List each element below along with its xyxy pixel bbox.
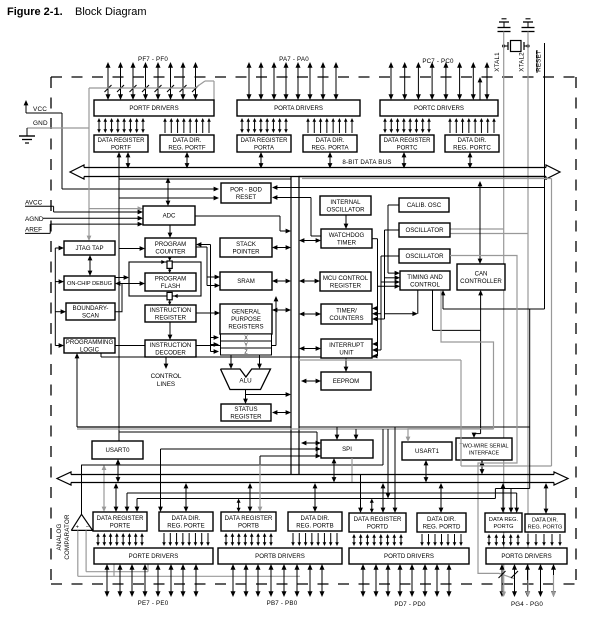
svg-text:DATA REGISTER: DATA REGISTER [354, 516, 402, 523]
mcu ctrl bus arrow [303, 280, 315, 282]
DATA REGISTER PORTD [349, 513, 406, 532]
svg-text:INTERRUPT: INTERRUPT [329, 342, 364, 349]
svg-text:REG. PORTF: REG. PORTF [168, 144, 205, 151]
DATA REGISTER PORTB [221, 512, 276, 531]
svg-text:INTERFACE: INTERFACE [469, 450, 500, 456]
DATA DIR. REG. PORTG [525, 514, 565, 532]
svg-text:EEPROM: EEPROM [333, 378, 359, 385]
bus to ADC arrow [167, 182, 169, 202]
XTAL1 ground + load capacitor [499, 21, 509, 23]
peripheral box bottom [299, 426, 530, 428]
svg-text:LOGIC: LOGIC [80, 346, 100, 353]
pc right arrow [210, 245, 212, 352]
svg-text:DATA DIR.: DATA DIR. [301, 515, 330, 522]
svg-text:ADC: ADC [163, 213, 176, 220]
svg-text:DATA DIR.: DATA DIR. [172, 515, 201, 522]
svg-text:POINTER: POINTER [232, 248, 260, 255]
boundary-scan to debug wire [115, 284, 122, 312]
POR wire from core corner [119, 197, 214, 199]
BOUNDARY-SCAN U [66, 303, 115, 320]
svg-text:REG. PORTC: REG. PORTC [453, 144, 491, 151]
DATA REG. PORTG [485, 513, 522, 532]
CONTROL LINES label+arrow [165, 357, 167, 365]
svg-text:ANALOG: ANALOG [56, 524, 63, 551]
svg-text:INTERNAL: INTERNAL [330, 199, 361, 206]
DATA DIR. REG. PORTE [159, 512, 213, 531]
PORTD pins [362, 569, 364, 592]
svg-text:SRAM: SRAM [237, 278, 255, 285]
svg-text:REGISTERS: REGISTERS [228, 324, 263, 331]
svg-text:CONTROLLER: CONTROLLER [460, 278, 502, 285]
svg-text:GENERAL: GENERAL [231, 309, 261, 316]
gray spi-portb wire [259, 465, 261, 507]
gpr bus arrow [276, 309, 286, 311]
timer to timing right arrow [417, 290, 419, 314]
svg-text:SPI: SPI [342, 446, 352, 453]
svg-text:XTAL1: XTAL1 [494, 52, 501, 72]
svg-text:REGISTER: REGISTER [330, 282, 362, 289]
alt function wire B [137, 498, 495, 500]
spi left wires [161, 448, 317, 450]
JTAG column feeder line [54, 248, 56, 346]
svg-text:REG. PORTA: REG. PORTA [311, 144, 349, 151]
svg-text:Figure 2-1.: Figure 2-1. [7, 6, 63, 18]
BOUNDARY-SCAN left arrow [55, 311, 61, 313]
svg-text:TIMER/: TIMER/ [336, 307, 357, 314]
svg-text:GND: GND [33, 120, 48, 127]
osc2 tosc gray rail [450, 256, 517, 579]
XTAL2 ground + load capacitor [523, 21, 533, 23]
svg-text:REG. PORTB: REG. PORTB [296, 522, 333, 529]
svg-text:DATA REGISTER: DATA REGISTER [241, 138, 289, 144]
eeprom bus arrow [305, 380, 316, 382]
DATA DIR. REG. PORTB [288, 512, 342, 531]
PORTA driver-register arrows [241, 121, 243, 130]
data bus upper [70, 165, 84, 179]
portd feed verticals [382, 429, 384, 465]
analog comparator A1 [71, 514, 92, 530]
svg-text:PURPOSE: PURPOSE [231, 316, 261, 323]
pc to sram wire [196, 246, 207, 248]
svg-text:Block Diagram: Block Diagram [75, 6, 147, 18]
SRAM U [220, 272, 272, 290]
spi bus arrows [333, 462, 335, 478]
watchdog to timing wire [372, 238, 378, 240]
svg-text:SCAN: SCAN [82, 312, 99, 319]
svg-text:DECODER: DECODER [155, 349, 186, 356]
USART0 U [92, 441, 143, 459]
clk out pin arrow [479, 82, 481, 100]
svg-text:STATUS: STATUS [234, 406, 257, 413]
stack pointer bus arrow [276, 247, 286, 249]
DATA DIR. REG. PORTC [445, 135, 499, 152]
analog supply gray rail to PORTF [89, 87, 195, 89]
JTAG TAP U [64, 241, 115, 255]
PORTE DRIVERS [94, 548, 213, 564]
XTAL2 net [527, 32, 529, 581]
PORTA register bus arrows [260, 156, 262, 164]
svg-text:−: − [86, 525, 89, 531]
portd register bus arrows [360, 475, 362, 509]
CAN CONTROLLER U [457, 264, 505, 290]
svg-text:PORTC DRIVERS: PORTC DRIVERS [414, 105, 464, 112]
comparator input wires [77, 530, 79, 576]
sram bus arrow [276, 280, 286, 282]
OSCILLATOR U1 [399, 223, 450, 237]
PORTA DRIVERS [237, 100, 360, 116]
instruction reg to gpr arrow [196, 312, 216, 314]
TIMING AND CONTROL U [400, 271, 450, 290]
svg-text:PG4 - PG0: PG4 - PG0 [511, 601, 543, 608]
svg-text:REG. PORTD: REG. PORTD [423, 523, 461, 530]
POR - BOD RESET U [221, 183, 271, 203]
svg-text:PORTC: PORTC [397, 145, 418, 151]
PORTC DRIVERS [380, 100, 498, 116]
oscillator1 to timing wire [385, 229, 400, 231]
usart1 gray wrap [408, 291, 494, 438]
svg-text:WATCHDOG: WATCHDOG [329, 232, 365, 239]
svg-text:USART0: USART0 [106, 447, 131, 454]
VCC pin [25, 104, 27, 113]
RESET net [544, 43, 546, 309]
porte register bus arrow [115, 487, 117, 507]
svg-text:DATA DIR.: DATA DIR. [427, 516, 456, 523]
PORTF driver-register arrows [98, 121, 100, 130]
DATA DIR. REG. PORTF [160, 135, 214, 152]
PORTC pins [390, 67, 392, 95]
svg-text:DATA REGISTER: DATA REGISTER [97, 516, 145, 522]
ADC output wire [195, 215, 280, 217]
PORTG DRIVERS [486, 548, 567, 564]
svg-text:AVCC: AVCC [25, 200, 43, 207]
svg-text:AGND: AGND [25, 216, 44, 223]
two-wire bus arrow [481, 464, 483, 470]
INTERNAL OSCILLATOR U [320, 196, 371, 215]
JTAG TAP left pin arrow [55, 247, 59, 249]
JTAG TAP to ON-CHIP DEBUG arrow [89, 259, 91, 271]
svg-text:PE7 - PE0: PE7 - PE0 [138, 600, 169, 607]
portb register bus arrow [249, 487, 251, 507]
svg-text:REG. PORTG: REG. PORTG [528, 525, 563, 531]
GND wire [27, 127, 89, 129]
VCC wire to POR [61, 113, 63, 189]
latch between flash and instruction register [169, 300, 171, 303]
XTAL1 net [503, 32, 505, 581]
watchdog left bus arrow [303, 240, 316, 242]
svg-text:FLASH: FLASH [161, 283, 181, 290]
svg-text:REG. PORTE: REG. PORTE [167, 522, 204, 529]
svg-text:PROGRAM: PROGRAM [155, 275, 187, 282]
PORTC driver-register arrows [384, 121, 386, 130]
svg-text:TIMING AND: TIMING AND [407, 274, 443, 281]
svg-text:DATA REGISTER: DATA REGISTER [225, 515, 273, 522]
interrupt bus arrow [303, 348, 316, 350]
svg-text:DATA REGISTER: DATA REGISTER [98, 138, 146, 144]
ALU status wire [245, 390, 247, 400]
PORTE pins [106, 569, 108, 592]
DATA REGISTER PORTC [380, 135, 434, 152]
svg-text:RESET: RESET [236, 194, 257, 201]
status register bus arrow [276, 412, 286, 414]
svg-text:PORTB DRIVERS: PORTB DRIVERS [255, 553, 305, 560]
interrupt to eeprom arrow [345, 358, 347, 368]
PROGRAMMING LOGIC left arrow [55, 345, 59, 347]
latch between PC and flash [169, 257, 171, 259]
alt function wire C riser [529, 309, 531, 489]
usart0 gray feed [103, 468, 105, 507]
svg-text:JTAG TAP: JTAG TAP [75, 245, 103, 252]
timing to CAN bottom wire [432, 290, 434, 330]
dashed chip boundary [51, 76, 576, 78]
DATA DIR. REG. PORTD [417, 513, 466, 532]
flash access box [129, 262, 201, 296]
INSTRUCTION DECODER U [145, 340, 196, 357]
CALIB. OSC U [399, 198, 449, 212]
PORTF DRIVERS [94, 100, 214, 116]
svg-text:PF7 - PF0: PF7 - PF0 [138, 56, 168, 63]
PORTF analog function slashes [105, 85, 112, 92]
register X [221, 334, 272, 341]
svg-text:PD7 - PD0: PD7 - PD0 [394, 601, 426, 608]
SPI U [321, 440, 373, 458]
svg-text:PA7 - PA0: PA7 - PA0 [279, 56, 309, 63]
usart0 bus arrow [117, 463, 119, 478]
pc left arrow [119, 248, 141, 250]
timer bus arrow [303, 313, 316, 315]
svg-text:DATA DIR.: DATA DIR. [458, 137, 487, 144]
PROGRAM FLASH U [145, 273, 196, 291]
svg-text:CONTROL: CONTROL [410, 281, 440, 288]
svg-text:USART1: USART1 [415, 448, 440, 455]
svg-text:COUNTER: COUNTER [155, 248, 186, 255]
portb dir bus arrow [314, 487, 316, 507]
register Y [221, 341, 272, 348]
svg-text:PORTF DRIVERS: PORTF DRIVERS [129, 105, 178, 112]
svg-text:PORTG DRIVERS: PORTG DRIVERS [501, 553, 551, 560]
CPU core boundary [290, 177, 292, 475]
portg slashes [499, 571, 506, 578]
spi top arrows [336, 427, 338, 435]
svg-text:PORTE: PORTE [110, 523, 130, 529]
PROGRAMMING LOGIC U [64, 338, 115, 353]
PORTF pins [107, 67, 109, 95]
gray right rail [302, 178, 552, 180]
alt function wire A [127, 492, 517, 494]
watchdog to POR wire [311, 235, 321, 237]
svg-text:PORTA: PORTA [254, 145, 274, 151]
on-chip debug to flash box arrows [115, 277, 125, 279]
svg-text:COUNTERS: COUNTERS [329, 315, 363, 322]
register Z [221, 348, 272, 355]
portb register-driver arrows [225, 536, 227, 543]
svg-text:ON-CHIP DEBUG: ON-CHIP DEBUG [67, 281, 112, 287]
oscillator2 to timing wire [381, 255, 399, 257]
gray mid rail [299, 359, 461, 361]
ADC U [143, 206, 195, 225]
svg-text:PORTB: PORTB [238, 522, 259, 529]
portg dir bus arrow [545, 487, 547, 509]
svg-text:PORTF: PORTF [111, 145, 131, 151]
crystal Y1 [511, 41, 522, 52]
spi left bus arrow [305, 442, 316, 444]
ON-CHIP DEBUG U [64, 276, 115, 290]
PORTC register bus arrows [403, 156, 405, 164]
svg-text:AREF: AREF [25, 227, 42, 234]
OSCILLATOR U2 [399, 249, 450, 263]
PROGRAM COUNTER U [145, 238, 196, 257]
svg-text:CALIB. OSC: CALIB. OSC [407, 202, 442, 209]
PORTA pins [248, 67, 250, 95]
DATA REGISTER PORTF [94, 135, 148, 152]
comparator to spi wire [82, 464, 384, 466]
svg-text:PORTD: PORTD [367, 523, 389, 530]
GENERAL PURPOSE REGISTERS U [220, 304, 272, 334]
svg-text:PC7 - PC0: PC7 - PC0 [422, 58, 454, 65]
ALU U [221, 369, 271, 390]
MCU CONTROL REGISTER U [320, 272, 371, 291]
portg register-driver arrows [488, 537, 490, 543]
ALU right wire [246, 394, 287, 396]
svg-text:MCU CONTROL: MCU CONTROL [323, 275, 369, 282]
programming logic bottom wire [76, 358, 78, 427]
STATUS REGISTER U [221, 404, 271, 421]
portg register bus arrow [502, 487, 504, 508]
svg-text:PORTE DRIVERS: PORTE DRIVERS [129, 553, 179, 560]
svg-text:REGISTER: REGISTER [155, 314, 187, 321]
PORTB DRIVERS [218, 548, 342, 564]
svg-text:COMPARATOR: COMPARATOR [64, 514, 71, 560]
ground symbol [26, 128, 28, 136]
svg-text:XTAL2: XTAL2 [519, 52, 526, 72]
PORTB pins [232, 569, 234, 592]
svg-text:DATA REG.: DATA REG. [489, 517, 519, 523]
porte register-driver arrows [97, 536, 99, 543]
svg-text:PROGRAMMING: PROGRAMMING [66, 339, 114, 346]
svg-text:OSCILLATOR: OSCILLATOR [405, 253, 444, 260]
portg gray pin shafts [503, 580, 505, 593]
portd dir bus arrow [440, 487, 442, 508]
svg-text:INSTRUCTION: INSTRUCTION [150, 342, 192, 349]
PORTG pins [501, 569, 503, 592]
PORTD DRIVERS [349, 548, 469, 564]
bus to CAN arrow [479, 185, 481, 259]
svg-text:REGISTER: REGISTER [230, 413, 262, 420]
svg-text:VCC: VCC [33, 106, 47, 113]
svg-text:INSTRUCTION: INSTRUCTION [150, 307, 192, 314]
DATA DIR. REG. PORTA [303, 135, 357, 152]
gpr to ALU arrows [230, 355, 232, 365]
svg-text:DATA DIR.: DATA DIR. [316, 137, 345, 144]
svg-text:OSCILLATOR: OSCILLATOR [405, 227, 444, 234]
internal osc to watchdog arrow [345, 215, 347, 225]
INTERRUPT UNIT U [321, 339, 372, 358]
svg-text:DATA DIR.: DATA DIR. [173, 137, 202, 144]
instruction reg to decoder arrow [169, 322, 171, 336]
peripheral region boundary [299, 177, 546, 475]
svg-text:ALU: ALU [239, 378, 252, 385]
ADC to PROGRAM COUNTER arrow [169, 225, 171, 234]
comparator output wire [81, 465, 83, 515]
svg-text:PORTG: PORTG [494, 524, 514, 530]
svg-text:TIMER: TIMER [337, 239, 357, 246]
svg-text:BOUNDARY-: BOUNDARY- [73, 305, 109, 312]
usart1 bus arrow [425, 464, 427, 478]
INSTRUCTION REGISTER U [145, 305, 196, 322]
svg-text:+: + [76, 525, 79, 531]
calib osc to timing wire [388, 204, 399, 206]
data bus lower [57, 472, 71, 485]
EEPROM U [321, 372, 371, 390]
DATA REGISTER PORTA [237, 135, 291, 152]
svg-text:PB7 - PB0: PB7 - PB0 [267, 600, 298, 607]
svg-text:STACK: STACK [236, 241, 256, 248]
portd register-driver arrows [353, 537, 355, 543]
timer/counters U [321, 304, 372, 324]
TWO-WIRE SERIAL INTERFACE U [456, 438, 512, 460]
porte dir bus arrow [185, 487, 187, 507]
svg-text:PORTA DRIVERS: PORTA DRIVERS [274, 105, 323, 112]
svg-text:CONTROL: CONTROL [151, 373, 182, 380]
svg-text:CAN: CAN [475, 270, 488, 277]
svg-text:POR - BOD: POR - BOD [230, 186, 262, 193]
gpr load arrows [211, 337, 215, 339]
svg-text:PROGRAM: PROGRAM [155, 241, 187, 248]
svg-text:UNIT: UNIT [339, 349, 353, 356]
PORTF register bus arrows [127, 156, 129, 164]
svg-text:TWO-WIRE SERIAL: TWO-WIRE SERIAL [459, 444, 508, 450]
svg-text:LINES: LINES [157, 381, 175, 388]
svg-text:OSCILLATOR: OSCILLATOR [326, 206, 365, 213]
svg-text:DATA DIR.: DATA DIR. [532, 518, 559, 524]
DATA REGISTER PORTE [93, 512, 147, 531]
programming logic to flash wire [115, 345, 276, 347]
svg-text:DATA REGISTER: DATA REGISTER [384, 138, 432, 144]
USART1 U [402, 442, 452, 460]
WATCHDOG TIMER U [321, 229, 372, 248]
svg-text:8-BIT DATA BUS: 8-BIT DATA BUS [342, 159, 391, 166]
svg-text:PORTD DRIVERS: PORTD DRIVERS [384, 553, 434, 560]
STACK POINTER U [220, 238, 272, 257]
ON-CHIP DEBUG left arrow [55, 281, 59, 283]
